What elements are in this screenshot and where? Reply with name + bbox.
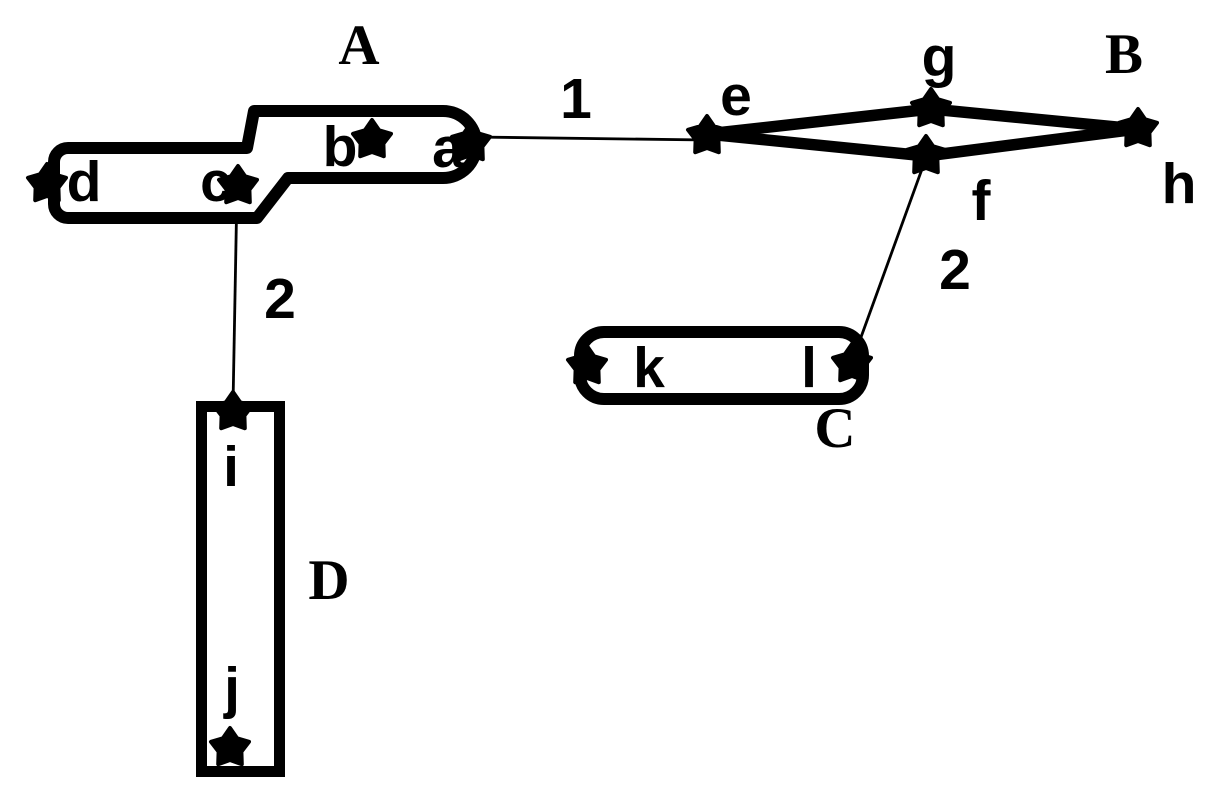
node g [912, 89, 950, 125]
hyperedge D outline [202, 407, 280, 772]
svg-text:C: C [814, 397, 855, 460]
node c [219, 166, 257, 202]
edge 2 (f-l) [852, 158, 926, 362]
svg-text:k: k [633, 336, 665, 400]
hyperedge C outline [580, 332, 863, 399]
node h [1119, 109, 1157, 145]
svg-text:c: c [200, 150, 232, 214]
svg-text:g: g [922, 25, 957, 89]
node i [214, 392, 252, 428]
node b [353, 120, 391, 156]
node a [452, 123, 490, 159]
node l [833, 344, 871, 380]
svg-text:j: j [223, 656, 240, 720]
svg-text:e: e [720, 64, 752, 128]
svg-text:B: B [1105, 23, 1143, 86]
hyperedge B diamond: edge e-f [707, 134, 926, 156]
node d [28, 164, 66, 200]
svg-text:D: D [308, 549, 349, 612]
svg-text:b: b [323, 115, 358, 179]
edge 1 (a-e) [473, 137, 707, 140]
svg-text:l: l [801, 336, 817, 400]
node e [688, 116, 726, 152]
svg-text:a: a [432, 116, 465, 180]
svg-text:A: A [338, 14, 379, 77]
node j [211, 728, 249, 764]
node k [568, 346, 606, 382]
svg-text:h: h [1162, 152, 1197, 216]
svg-text:d: d [67, 150, 102, 214]
node f [907, 136, 945, 172]
edge 2 (c-i) [233, 188, 237, 405]
svg-text:1: 1 [560, 67, 592, 131]
svg-text:i: i [223, 435, 239, 499]
svg-text:2: 2 [264, 267, 296, 331]
svg-text:2: 2 [939, 238, 971, 302]
hyperedge A outline [54, 111, 476, 218]
hyperedge B diamond: edge e-g [707, 109, 931, 134]
hyperedge B diamond: edge g-h [931, 109, 1137, 129]
svg-text:f: f [972, 169, 992, 233]
hyperedge B diamond: edge f-h [926, 129, 1137, 156]
